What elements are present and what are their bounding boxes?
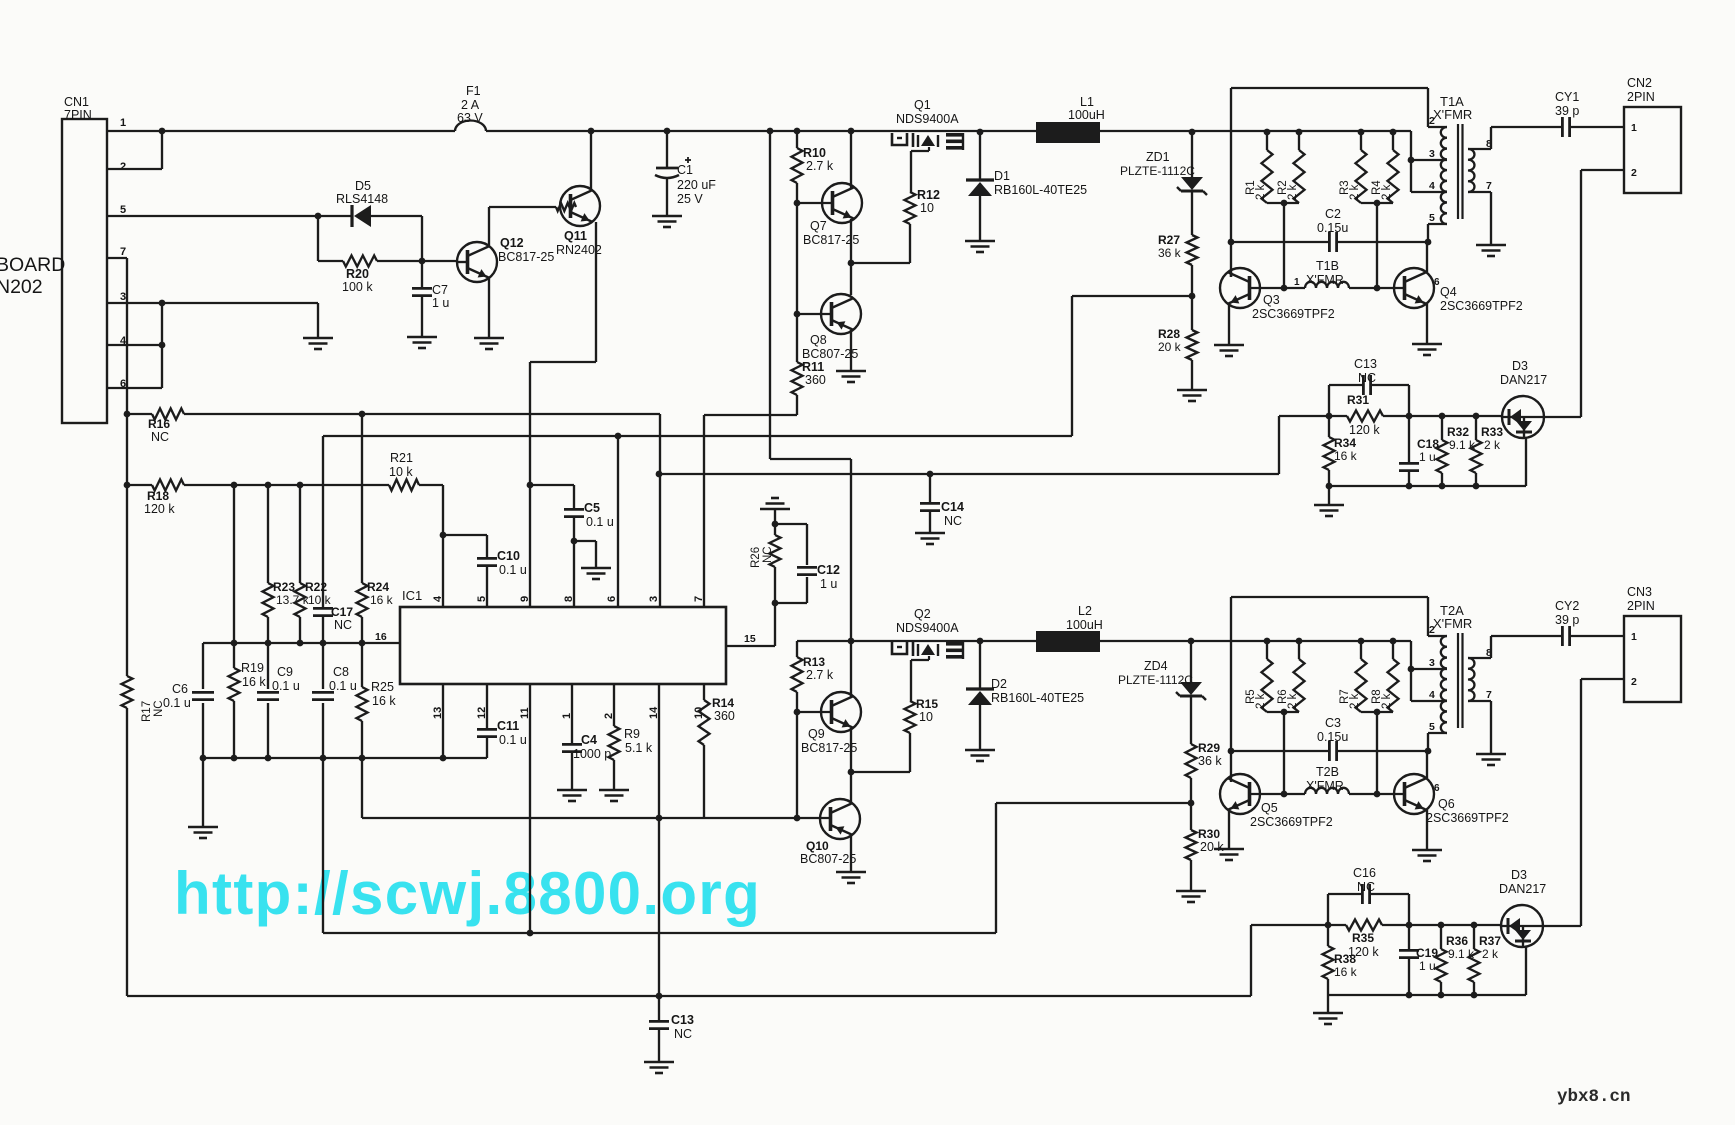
mosfet Q2 NDS9400A (892, 642, 907, 654)
svg-text:C3: C3 (1325, 716, 1341, 730)
wire joining pins 3 4 6 (161, 303, 163, 388)
node R33 top (1473, 413, 1480, 420)
svg-text:Q5: Q5 (1261, 801, 1278, 815)
resistor R12 10 (910, 151, 912, 192)
node channel2 rail feed (848, 638, 855, 645)
node R32 top (1439, 413, 1446, 420)
svg-text:5: 5 (476, 596, 488, 602)
svg-text:R22: R22 (305, 580, 327, 594)
svg-text:R12: R12 (917, 188, 940, 202)
svg-text:CY1: CY1 (1555, 90, 1579, 104)
svg-text:RB160L-40TE25: RB160L-40TE25 (994, 183, 1087, 197)
svg-text:R32: R32 (1447, 425, 1469, 439)
wire rail feed down to channel 2 (769, 131, 771, 459)
capacitor C10 0.1u (486, 535, 488, 558)
svg-text:2SC3669TPF2: 2SC3669TPF2 (1426, 811, 1509, 825)
capacitor C17 NC (322, 436, 324, 608)
transistor Q8 BC807-25 (821, 294, 861, 334)
wire T2A pin2 loop (1231, 596, 1428, 598)
node R22 pin16 (297, 640, 304, 647)
svg-text:7: 7 (693, 596, 705, 602)
svg-text:Q9: Q9 (808, 727, 825, 741)
svg-text:BC807-25: BC807-25 (800, 852, 856, 866)
wire R16 to IC pin3 (659, 414, 661, 607)
node ZD4 rail (1188, 638, 1195, 645)
capacitor C8 0.1u (322, 643, 324, 689)
svg-text:IC1: IC1 (402, 588, 422, 603)
resistor R26 NC (770, 535, 781, 567)
svg-text:C14: C14 (941, 500, 964, 514)
ground under R30 (1176, 890, 1206, 893)
ground under Q6 (1412, 849, 1442, 852)
wire emitter node to R15 (851, 771, 910, 773)
svg-text:16 k: 16 k (370, 593, 394, 607)
wire pin5 branch down to R20 (317, 216, 319, 261)
svg-text:5.1 k: 5.1 k (625, 741, 653, 755)
capacitor C16 NC loop (1327, 894, 1329, 925)
svg-text:16 k: 16 k (1334, 449, 1358, 463)
svg-text:2PIN: 2PIN (1627, 90, 1655, 104)
svg-text:NC: NC (944, 514, 962, 528)
svg-text:0.15u: 0.15u (1317, 730, 1348, 744)
svg-text:2.7 k: 2.7 k (806, 159, 834, 173)
zener ZD1 PLZTE-1112C (1191, 132, 1193, 177)
svg-text:R18: R18 (147, 489, 169, 503)
svg-text:2 k: 2 k (1484, 438, 1501, 452)
svg-text:2 A: 2 A (461, 98, 480, 112)
svg-text:2 k: 2 k (1255, 693, 1267, 709)
wire Q12 collector (488, 207, 490, 246)
resistor R28 20k (1187, 330, 1198, 360)
ground under Q5 (1214, 848, 1244, 851)
fuse F1 (455, 121, 486, 132)
svg-text:D1: D1 (994, 169, 1010, 183)
ground under Q8 (836, 370, 866, 373)
svg-text:R14: R14 (712, 696, 734, 710)
svg-text:4: 4 (1429, 180, 1435, 192)
svg-text:RLS4148: RLS4148 (336, 192, 388, 206)
wire D5 to C7 node (371, 215, 422, 217)
node C2 left (1228, 239, 1235, 246)
svg-text:R26: R26 (750, 547, 762, 568)
svg-text:F1: F1 (466, 84, 481, 98)
node R18 left (124, 482, 131, 489)
ground under Q3 (1214, 344, 1244, 347)
svg-text:R24: R24 (367, 580, 389, 594)
svg-text:BC817-25: BC817-25 (498, 250, 554, 264)
svg-text:C4: C4 (581, 733, 597, 747)
resistor R18 120k (127, 484, 152, 486)
resistor R37 2k (1473, 925, 1475, 949)
resistor R16 NC (127, 413, 152, 415)
resistor R20 (318, 260, 343, 262)
node pin4 junction (159, 342, 166, 349)
wire CN1 pin2 (107, 168, 162, 170)
svg-text:CN2: CN2 (1627, 76, 1652, 90)
svg-text:R33: R33 (1481, 425, 1503, 439)
svg-text:R16: R16 (148, 417, 170, 431)
transformer T1A core (1457, 124, 1459, 219)
diode D3 DAN217 upper (1502, 396, 1544, 438)
transistor Q3 2SC3669TPF2 (1220, 268, 1260, 308)
resistor R27 36k (1187, 235, 1198, 265)
svg-text:0.1 u: 0.1 u (586, 515, 614, 529)
svg-text:0.1 u: 0.1 u (499, 733, 527, 747)
svg-text:R29: R29 (1198, 741, 1220, 755)
svg-text:R19: R19 (241, 661, 264, 675)
svg-text:1 u: 1 u (820, 577, 837, 591)
svg-text:2SC3669TPF2: 2SC3669TPF2 (1252, 307, 1335, 321)
wire Q4 emitter to ground (1426, 304, 1428, 344)
svg-text:R36: R36 (1446, 934, 1468, 948)
node Q8 base (794, 311, 801, 318)
wire T2A pin5 (1428, 732, 1447, 734)
svg-text:1000 p: 1000 p (573, 747, 611, 761)
wire Q3 collector lead (1230, 272, 1232, 277)
svg-text:2 k: 2 k (1482, 947, 1499, 961)
node C5 top (527, 482, 534, 489)
wire R25 column to Q10 base row (361, 758, 363, 818)
svg-text:R30: R30 (1198, 827, 1220, 841)
svg-text:1: 1 (120, 117, 126, 129)
resistors R5 R6 2k (1264, 638, 1271, 645)
wire D3 network bottom row (1329, 485, 1526, 487)
resistor R25 16k (361, 643, 363, 687)
capacitor C12 1u (806, 577, 808, 603)
wire CN2 pin2 return (1581, 169, 1624, 171)
svg-text:PLZTE-1112C: PLZTE-1112C (1120, 164, 1195, 178)
svg-text:R15: R15 (916, 697, 938, 711)
wire Q3 emitter to ground (1228, 304, 1230, 345)
inductor L1 100uH (1036, 122, 1100, 143)
svg-text:3: 3 (1429, 657, 1435, 669)
svg-text:Q8: Q8 (810, 333, 827, 347)
svg-text:R35: R35 (1352, 931, 1374, 945)
wire IC pin10 column (703, 684, 705, 700)
svg-text:L2: L2 (1078, 604, 1092, 618)
ground under D2 (965, 749, 995, 752)
wire CN1 pin7 column (107, 257, 127, 259)
resistor R24 16k (361, 414, 363, 583)
wire IC pin9 column (529, 362, 531, 607)
svg-text:100uH: 100uH (1066, 618, 1103, 632)
wire node down to Q8 collector (850, 263, 852, 295)
node ZD1 rail (1189, 129, 1196, 136)
transistor Q9 BC817-25 (821, 692, 861, 732)
svg-text:10 k: 10 k (389, 465, 413, 479)
resistor R13 2.7k (796, 641, 798, 657)
resistor R21 10k (389, 480, 419, 491)
capacitor C5 0.1u (530, 484, 574, 486)
node R16 left (124, 411, 131, 418)
wire CN1 pin1 rail (107, 130, 455, 132)
resistor R30 20k (1186, 830, 1197, 860)
svg-text:R34: R34 (1334, 436, 1356, 450)
node pin1 junction (159, 128, 166, 135)
svg-text:DAN217: DAN217 (1499, 882, 1546, 896)
wire Q7 emitter to node (850, 219, 852, 263)
svg-text:C7: C7 (432, 283, 448, 297)
ground under Q4 (1412, 343, 1442, 346)
svg-text:1: 1 (1631, 122, 1637, 134)
svg-text:X'FMR: X'FMR (1306, 779, 1344, 793)
svg-text:360: 360 (805, 373, 826, 387)
svg-text:0.1 u: 0.1 u (163, 696, 191, 710)
transformer T2A primary winding (1441, 636, 1447, 733)
wire Q9 base lead (797, 711, 831, 713)
svg-text:R27: R27 (1158, 233, 1180, 247)
svg-text:220 uF: 220 uF (677, 178, 716, 192)
transistor Q4 2SC3669TPF2 (1394, 268, 1434, 308)
capacitor C9 0.1u (267, 643, 269, 689)
svg-text:C5: C5 (584, 501, 600, 515)
wire Q5 emitter to ground (1228, 810, 1230, 849)
svg-text:R31: R31 (1347, 393, 1369, 407)
svg-text:8: 8 (563, 596, 575, 602)
resistor R35 120k (1251, 924, 1346, 926)
svg-text:D3: D3 (1512, 359, 1528, 373)
svg-text:ZD4: ZD4 (1144, 659, 1168, 673)
wire D3 lower network bottom row (1328, 994, 1526, 996)
svg-text:4: 4 (1429, 689, 1435, 701)
svg-text:C1: C1 (677, 163, 693, 177)
svg-text:RB160L-40TE25: RB160L-40TE25 (991, 691, 1084, 705)
ground under C14 (915, 532, 945, 535)
wire Q9 collector to rail (850, 641, 852, 697)
node R23 pin16 (265, 640, 272, 647)
wire node down to Q10 collector (850, 772, 852, 804)
svg-text:2 k: 2 k (1349, 184, 1361, 200)
wire Q6 collector to pin5 node (1426, 751, 1428, 778)
svg-text:R23: R23 (273, 580, 295, 594)
wire emitter node to R12 (851, 262, 910, 264)
svg-text:7: 7 (1486, 180, 1492, 192)
transistor Q10 BC807-25 (820, 799, 860, 839)
wire Q12 emitter to ground (488, 278, 490, 338)
svg-text:R20: R20 (346, 267, 369, 281)
svg-text:16 k: 16 k (242, 675, 266, 689)
svg-text:DAN217: DAN217 (1500, 373, 1547, 387)
wire IC pin11 column (529, 684, 531, 933)
svg-text:2.7 k: 2.7 k (806, 668, 834, 682)
svg-text:NC: NC (334, 618, 352, 632)
node C6 bottom (200, 755, 207, 762)
svg-text:Q6: Q6 (1438, 797, 1455, 811)
svg-text:2: 2 (1429, 624, 1435, 636)
wire CN1 pin6 (107, 387, 162, 389)
ground under R28 (1177, 389, 1207, 392)
resistor R14 360 (699, 700, 710, 745)
node R36 top (1438, 922, 1445, 929)
node D5 left (315, 213, 322, 220)
node Q11 collector rail (588, 128, 595, 135)
svg-text:R11: R11 (802, 360, 824, 374)
svg-text:63 V: 63 V (457, 111, 483, 125)
svg-text:20 k: 20 k (1200, 840, 1224, 854)
svg-text:2 k: 2 k (1381, 184, 1393, 200)
svg-text:Q12: Q12 (500, 236, 524, 250)
ground under D1 (965, 240, 995, 243)
wire CN1 pin5 to D5 (107, 215, 352, 217)
svg-text:NDS9400A: NDS9400A (896, 112, 959, 126)
svg-text:X'FMR: X'FMR (1433, 616, 1472, 631)
node R5 R6 tap (1281, 709, 1288, 716)
svg-text:Q7: Q7 (810, 219, 827, 233)
wire T1A pin8 to CY1 (1468, 148, 1491, 150)
node Q7 base (794, 200, 801, 207)
svg-text:C11: C11 (497, 719, 519, 733)
wire R13 column down (796, 712, 798, 818)
resistor R33 2k (1475, 416, 1477, 440)
resistor R23 13.7k (267, 485, 269, 583)
node T1A pin5 C2 Q4 collector (1425, 239, 1432, 246)
wire Q4 collector to pin5 node (1426, 242, 1428, 272)
connector CN2 (1624, 107, 1681, 193)
wire Q12 collector to Q11 base (489, 206, 556, 208)
ground under T2A pin7 (1476, 753, 1506, 756)
svg-text:39 p: 39 p (1555, 613, 1579, 627)
wire Q10 emitter to ground (850, 835, 852, 872)
svg-text:R13: R13 (803, 655, 825, 669)
node R29 R30 junction (1188, 800, 1195, 807)
node Q7 emitter R12 (848, 260, 855, 267)
ground under Q12 (474, 337, 504, 340)
ground for CN1 pins 3 4 6 (303, 337, 333, 340)
svg-text:C6: C6 (172, 682, 188, 696)
svg-text:4: 4 (432, 595, 444, 602)
svg-text:2 k: 2 k (1255, 184, 1267, 200)
diode D2 RB160L-40TE25 (979, 641, 981, 689)
ground under R34 (1328, 486, 1330, 505)
capacitor C19 1u (1408, 925, 1410, 950)
node R24 pin16 (359, 640, 366, 647)
node Q9 base (794, 709, 801, 716)
svg-text:NC: NC (151, 430, 169, 444)
wire Q8 base lead (797, 313, 831, 315)
wire Q5 collector column (1230, 597, 1232, 782)
svg-text:R25: R25 (371, 680, 394, 694)
svg-text:X'FMR: X'FMR (1306, 273, 1344, 287)
node D1 rail (977, 129, 984, 136)
svg-text:0.15u: 0.15u (1317, 221, 1348, 235)
zener ZD4 PLZTE-1112C (1190, 641, 1192, 682)
capacitor CY1 39p (1561, 117, 1564, 137)
wire R10 to Q8 base column (796, 203, 798, 362)
svg-text:100 k: 100 k (342, 280, 373, 294)
node pin3 junction (159, 300, 166, 307)
node T2A pin5 C3 Q6 collector (1425, 748, 1432, 755)
svg-text:2: 2 (1429, 115, 1435, 127)
node R20 C7 junction (419, 258, 426, 265)
svg-text:5: 5 (1429, 212, 1435, 224)
transformer T2A secondary winding (1468, 658, 1474, 701)
wire T1A pin2 loop (1231, 87, 1428, 89)
svg-text:R28: R28 (1158, 327, 1180, 341)
capacitor C3 0.15u (1231, 750, 1329, 752)
svg-text:R17: R17 (141, 701, 153, 722)
ground under R9 (599, 789, 629, 792)
svg-text:3: 3 (648, 596, 660, 602)
transformer T1A secondary winding (1468, 149, 1474, 192)
capacitor C13 NC bottom (658, 996, 660, 1020)
capacitor C18 1u (1408, 416, 1410, 463)
svg-text:Q3: Q3 (1263, 293, 1280, 307)
svg-text:BOARD: BOARD (0, 254, 65, 276)
svg-text:2 k: 2 k (1287, 184, 1299, 200)
transistor Q11 RN2402 with internal resistor (560, 186, 600, 226)
inductor L2 100uH (1036, 631, 1100, 652)
svg-text:T1B: T1B (1316, 259, 1339, 273)
wire channel1 feedback to pin3 (1278, 416, 1280, 474)
svg-text:NC: NC (674, 1027, 692, 1041)
wire rail to T1A pin3 pin4 (1410, 131, 1412, 192)
svg-text:10: 10 (919, 710, 933, 724)
wire T2A pin7 to ground (1468, 700, 1491, 702)
resistor R11 360 (792, 362, 803, 395)
svg-text:100uH: 100uH (1068, 108, 1105, 122)
svg-text:39 p: 39 p (1555, 104, 1579, 118)
node R3 R4 tap (1374, 200, 1381, 207)
node R37 top (1471, 922, 1478, 929)
resistors R1 R2 2k (1264, 129, 1271, 136)
resistor R9 5.1k (613, 684, 615, 726)
wire CN1 pin4 (107, 344, 162, 346)
svg-text:10 k: 10 k (308, 593, 332, 607)
resistor R19 16k (233, 485, 235, 668)
svg-text:R37: R37 (1479, 934, 1501, 948)
svg-text:NC: NC (762, 546, 774, 563)
svg-text:C10: C10 (497, 549, 520, 563)
svg-text:20 k: 20 k (1158, 340, 1182, 354)
wire R20 node to Q12 base (422, 260, 457, 262)
svg-text:2: 2 (1631, 676, 1637, 688)
svg-text:2SC3669TPF2: 2SC3669TPF2 (1250, 815, 1333, 829)
svg-text:CN3: CN3 (1627, 585, 1652, 599)
node C17 pin16 (320, 640, 327, 647)
wire bottom bus of ladder (203, 757, 487, 759)
svg-text:C9: C9 (277, 665, 293, 679)
node C19 top (1406, 922, 1413, 929)
ground under Q10 (836, 871, 866, 874)
transformer T2A core (1457, 633, 1459, 728)
mosfet Q1 NDS9400A (892, 133, 907, 145)
transformer T1A primary winding (1441, 127, 1447, 224)
svg-text:http://scwj.8800.org: http://scwj.8800.org (174, 860, 761, 927)
wire C5 ground stub (571, 538, 578, 545)
wire CN1 pin3 to ground (107, 302, 318, 304)
svg-text:1 u: 1 u (1419, 450, 1436, 464)
svg-text:C13: C13 (671, 1013, 694, 1027)
svg-text:BC817-25: BC817-25 (801, 741, 857, 755)
resistor R38 16k (1323, 946, 1334, 979)
ground under R38 (1327, 995, 1329, 1013)
svg-text:R21: R21 (390, 451, 413, 465)
svg-text:CN1: CN1 (64, 95, 89, 109)
wire T1A pin7 to ground (1468, 191, 1491, 193)
IC1 box (400, 607, 726, 684)
svg-text:7: 7 (1486, 689, 1492, 701)
resistors R7 R8 2k (1358, 638, 1365, 645)
svg-text:X'FMR: X'FMR (1433, 107, 1472, 122)
node pin4 pin5 link (440, 532, 447, 539)
wire channel2 return to bottom bus (1250, 925, 1252, 996)
capacitor C2 0.15u (1231, 241, 1329, 243)
svg-text:ZD1: ZD1 (1146, 150, 1170, 164)
wire rail to T2A pin3 pin4 (1410, 641, 1412, 701)
connector CN3 (1624, 616, 1681, 702)
svg-text:T2B: T2B (1316, 765, 1339, 779)
svg-text:C17: C17 (331, 605, 353, 619)
